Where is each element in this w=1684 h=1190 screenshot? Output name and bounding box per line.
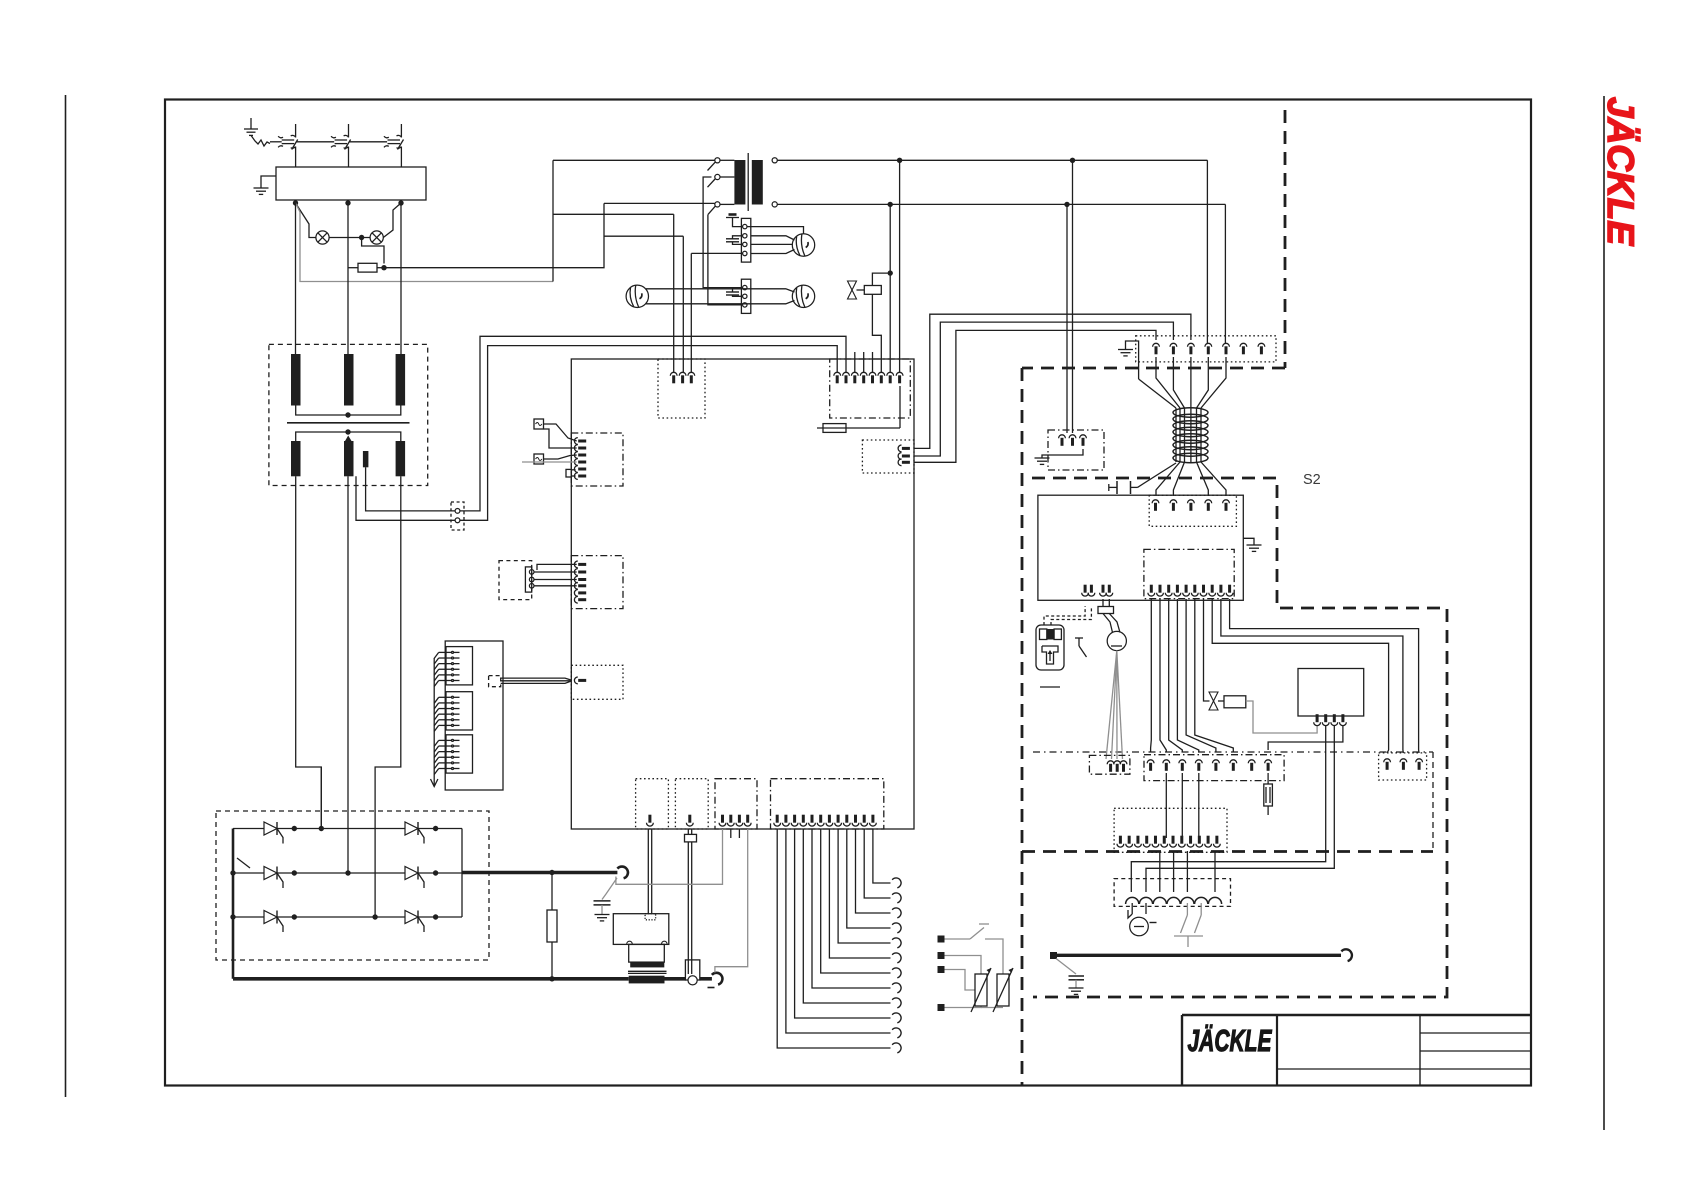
svg-text:JÄCKLE: JÄCKLE xyxy=(1188,1023,1273,1058)
svg-text:JÄCKLE: JÄCKLE xyxy=(1600,97,1641,246)
svg-text:S2: S2 xyxy=(1303,472,1321,488)
